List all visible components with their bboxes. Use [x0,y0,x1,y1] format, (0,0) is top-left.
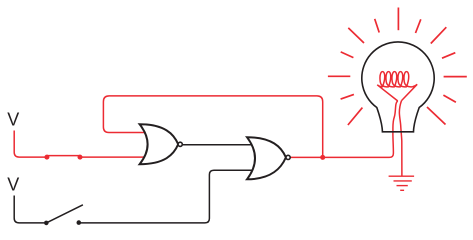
svg-text:V: V [7,110,19,130]
svg-text:V: V [7,175,19,195]
